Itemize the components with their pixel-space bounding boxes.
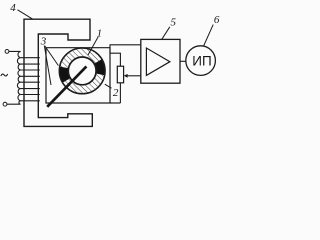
leader 2 — [105, 84, 112, 88]
wiper arrowhead — [124, 74, 128, 78]
sensor box — [46, 48, 110, 103]
svg-text:4: 4 — [10, 2, 16, 14]
svg-text:2: 2 — [113, 87, 119, 99]
potentiometer bottom wire — [119, 83, 121, 103]
inner circle — [68, 57, 96, 85]
coil left arc chain — [7, 51, 21, 104]
AC source tilde — [1, 74, 8, 76]
svg-text:5: 5 — [171, 17, 177, 29]
outer circle — [59, 48, 105, 94]
electrode left 3 — [64, 67, 67, 80]
terminal bottom — [3, 102, 7, 106]
coil winding on left limb — [7, 51, 40, 104]
potentiometer body — [117, 66, 123, 83]
svg-text:3: 3 — [40, 36, 47, 48]
instrument circle 6 — [186, 46, 216, 76]
magnetic core 4 (C-shaped yoke with pole shoes) — [24, 19, 92, 126]
leader 1 — [88, 37, 98, 55]
svg-text:ИП: ИП — [192, 53, 211, 68]
wire to amplifier upper input — [110, 45, 141, 53]
wiper wire to amplifier lower input — [127, 75, 141, 77]
wire to potentiometer top — [110, 53, 120, 66]
amplifier triangle — [146, 48, 170, 75]
leader 5 — [162, 27, 170, 40]
leader 3b — [44, 46, 51, 85]
shaft pointer — [47, 66, 86, 106]
svg-text:6: 6 — [214, 14, 220, 26]
leader 3a — [45, 46, 59, 66]
leader 4 — [18, 10, 34, 19]
wire amp to instrument — [180, 60, 186, 62]
electrode right 2 — [98, 61, 101, 74]
terminal top — [5, 50, 9, 54]
ring hatched annulus 1 — [60, 49, 105, 94]
leader 6 — [204, 25, 214, 46]
coil loop rungs — [21, 58, 40, 101]
wire box bottom extension — [110, 102, 120, 104]
amplifier box 5 — [141, 39, 180, 83]
